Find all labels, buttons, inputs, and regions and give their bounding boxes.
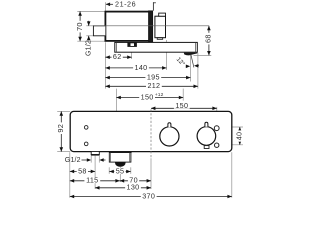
extension line: body front face down (62/140/195/212) [104,42,106,88]
extension line: body bottom leftward (70 dim) [77,40,105,42]
extension line: inlet left (G1/2) [90,156,92,163]
dimension 58 [70,170,95,172]
svg-text:40: 40 [235,132,244,140]
hose outlet circle lower [215,143,219,147]
dimension 370 [70,196,232,198]
dimension text 92 [57,122,63,134]
clamp block under body [127,42,136,47]
dimension 150+12 (union spacing) [116,97,183,99]
extension line: nipple bottom leftward (G1/2 side) [86,35,93,37]
bracket top tab [159,13,166,16]
G1/2 inlet stub (front view) [91,152,99,155]
svg-text:150: 150 [175,101,188,110]
dimension text 70 front [128,177,139,183]
svg-text:130: 130 [127,183,140,192]
G1/2 wall inlet nipple (side view) [93,26,105,36]
extension line: body bottom left (92 dim) [57,151,70,153]
svg-text:+12: +12 [155,92,164,98]
extension line: wall plate face up (21-26 dim) [152,2,154,11]
dimension text 68 [205,33,211,45]
volume knob (right) [197,127,216,146]
wall mounting plate (dark bar) [149,11,153,42]
dimension 12 deg angle at spout [191,54,194,68]
extension line: spout right (55 dim) [130,167,132,174]
dimension text 150 sup +12 [139,94,155,100]
svg-text:55: 55 [116,166,125,175]
dimension text 370 [141,193,157,199]
dimension text 115 [84,177,100,183]
dimension 140 [105,67,166,69]
svg-text:70: 70 [75,22,84,31]
extension line: body centre down (70/130) [150,158,152,189]
svg-text:21-26: 21-26 [115,0,136,9]
svg-text:195: 195 [147,73,160,82]
extension line: bracket rear down (140 dim) [166,40,168,70]
svg-text:140: 140 [135,63,148,72]
extension line: body top left (92 dim) [57,110,70,112]
extension line: inlet right (G1/2) [98,156,100,163]
extension line: spout left (55 dim) [108,167,110,174]
shelf inner line left [115,42,117,52]
temperature knob (left) [160,127,179,146]
wall bracket (side view) [155,16,166,38]
extension line for 150+12 left [115,89,117,111]
svg-text:G1/2: G1/2 [65,157,81,164]
extension line: inlet centre down (58/130) [94,156,96,189]
dashed centreline of body [150,109,152,157]
extension line for 150+12 right [182,89,184,101]
screw hole upper left [84,126,88,130]
dimension 212 [105,85,197,87]
extension line: body top leftward (70 dim) [77,10,105,12]
dimension text 58 [77,168,88,174]
bracket bottom tab [157,38,163,40]
extension line: spout underside right (68 dim) [194,54,212,56]
dimension 195 [105,77,190,79]
tick at top of wall plate extension [153,2,156,4]
shelf plate (side view) [115,42,198,52]
svg-text:115: 115 [86,176,98,185]
dimension 150 (centre to hose outlet) [151,107,217,109]
dimension 21-26 (top) [106,3,110,7]
extension line: body front face up (21-26 dim) [104,2,106,11]
dimension 130 [95,187,151,189]
extension line: hose outlet up (150 dim) [216,107,218,126]
svg-text:212: 212 [147,81,160,90]
extension line: lower outlet right (40 dim) [219,144,243,146]
dimension text 195 [145,74,161,80]
svg-text:92: 92 [56,124,65,133]
dimension 115 [70,180,120,182]
extension line: spout outlet down (195 dim / 12 deg) [190,53,192,82]
extension line: clamp centre down (62 dim) [131,47,133,59]
dimension text 55 [114,168,125,174]
dimension 62 [105,56,131,58]
aerator dome (dark) [115,162,126,167]
extension line: body right edge down (370) [231,152,233,198]
spout / aerator underside (side view, 12 deg) [184,53,198,56]
thermostat front panel body [70,111,232,151]
dimension text 130 [125,184,141,190]
G1/2 label (side view, rotated) [88,21,90,26]
extension line: body left edge down (58/115/370) [69,152,71,198]
dimension 92 (left vertical) [60,111,62,151]
extension line: upper outlet right (40 dim) [219,126,243,128]
dimension 40 (right vertical) [239,127,241,145]
shelf inner line right [195,42,197,52]
svg-text:62: 62 [113,52,122,61]
spout block (front view) [109,152,131,162]
dimension text 70 [76,21,82,33]
dimension 70 (front) [120,180,151,182]
dimension text 140 [133,64,149,70]
dimension text 150 [174,103,190,109]
long reference line through inlet level to 68 dim [93,25,208,27]
extension line: nipple top leftward (G1/2 side) [86,25,93,27]
dimension text 40 [236,130,242,141]
svg-text:68: 68 [204,34,213,43]
svg-text:58: 58 [78,166,87,175]
dimension 55 [109,171,130,173]
dimension text 62 [112,54,123,60]
extension line: shelf end down (212 dim) [197,53,199,89]
screw hole lower left [84,142,88,146]
thermostat body (side view) [105,12,149,41]
svg-text:370: 370 [142,191,155,200]
svg-text:G1/2: G1/2 [85,40,92,56]
dimension 70 (left vertical) [79,11,81,41]
extension line: spout centre down (115/70) [119,167,121,182]
hose outlet circle upper [214,126,219,131]
knob 2 bottom tab [204,146,209,149]
dimension 68 (right vertical) [208,26,210,56]
dimension text 212 [146,83,162,89]
svg-text:150: 150 [141,92,154,101]
